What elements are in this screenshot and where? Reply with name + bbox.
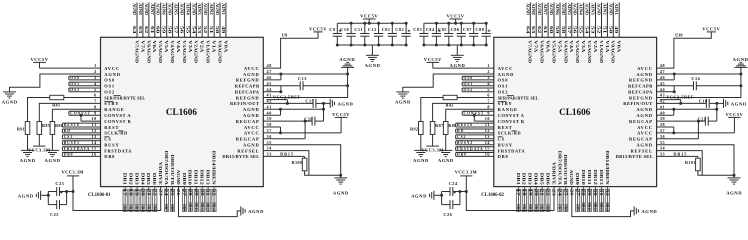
svg-text:40: 40 (267, 110, 272, 115)
svg-text:1: 1 (487, 63, 490, 68)
wire pin43 REFGND U10 (629, 67, 741, 100)
svg-text:OS2: OS2 (70, 88, 80, 92)
svg-text:61: 61 (150, 26, 154, 34)
resistor R42 (series on pin6) (443, 95, 457, 107)
svg-text:49: 49 (221, 26, 225, 34)
svg-text:AGND: AGND (561, 3, 565, 15)
svg-text:DB3: DB3 (134, 173, 139, 185)
pin 60 AGND top stub U10 (549, 3, 554, 38)
svg-text:REFGND: REFGND (236, 95, 260, 100)
svg-text:VCC5V: VCC5V (360, 14, 378, 19)
wire pin34 REFSEL U10 (630, 146, 702, 176)
svg-text:DB11: DB11 (194, 202, 198, 211)
svg-text:DB5: DB5 (540, 204, 544, 211)
svg-text:AIN2: AIN2 (209, 3, 213, 15)
pin 21 DB5 bottom stub U9 (146, 187, 150, 212)
port OS1 to pin 4 U10 (462, 81, 508, 89)
svg-text:DB2: DB2 (522, 204, 526, 211)
svg-text:AIN4: AIN4 (579, 3, 583, 15)
wire pin48 AVCC to VCC5V U10 (637, 32, 711, 71)
svg-text:13: 13 (485, 134, 490, 139)
port FRSTDATA to pin 15 U10 (456, 146, 526, 154)
svg-text:56: 56 (179, 26, 183, 34)
svg-text:2: 2 (487, 69, 490, 74)
svg-text:DB7/DOUTA: DB7/DOUTA (557, 151, 562, 186)
svg-text:AGND: AGND (339, 57, 355, 62)
svg-text:11: 11 (92, 122, 97, 127)
svg-text:SCLK/RD: SCLK/RD (498, 131, 522, 136)
wire pin36 REGCAP U9 (236, 121, 305, 142)
svg-text:V7AGND: V7AGND (528, 40, 533, 63)
wire pin8 RANGE U9 (52, 104, 124, 121)
port DB0 to pin 16 U10 (456, 152, 509, 160)
port DB3 (pin 19) (135, 189, 139, 211)
svg-text:SER/PAR/BYTE SEL: SER/PAR/BYTE SEL (104, 95, 145, 100)
svg-text:AVCC: AVCC (104, 66, 120, 71)
pin name DB3 (134, 173, 139, 185)
svg-text:REST: REST (104, 125, 119, 130)
svg-text:DB10: DB10 (188, 202, 192, 211)
svg-text:DB8/OUTB: DB8/OUTB (563, 154, 568, 185)
svg-text:59: 59 (555, 26, 559, 34)
svg-text:37: 37 (660, 128, 665, 133)
svg-text:DB4: DB4 (534, 204, 538, 211)
svg-text:R91: R91 (17, 127, 25, 132)
pin 29 DB11 bottom stub U10 (587, 187, 591, 212)
svg-text:DB9: DB9 (182, 173, 187, 185)
svg-text:4: 4 (94, 81, 97, 86)
svg-text:REFSEL: REFSEL (630, 148, 652, 153)
svg-text:53: 53 (591, 26, 595, 34)
resistor R86 pulldown (50, 122, 63, 151)
svg-text:AGND: AGND (731, 102, 747, 107)
pin 17 DB1 bottom stub U10 (516, 187, 520, 212)
pin 20 DB4 bottom stub U9 (141, 187, 145, 212)
svg-text:63: 63 (138, 26, 142, 34)
port DB7 (pin 24) (164, 189, 169, 211)
pin name V4A (569, 40, 574, 53)
svg-text:V0A: V0A (617, 40, 622, 53)
svg-text:48: 48 (267, 63, 272, 68)
port DB0 to pin 16 U9 (62, 152, 115, 160)
svg-text:C87: C87 (463, 27, 472, 32)
pin 26 AGND bottom stub U9 (176, 189, 180, 196)
svg-text:REGCAP: REGCAP (629, 137, 653, 142)
svg-text:DB6: DB6 (152, 204, 156, 211)
pin 59 AIN6 top stub U10 (555, 3, 560, 38)
port DB5 (pin 21) (540, 189, 545, 211)
port DB12 (pin 30) (200, 189, 205, 211)
svg-text:DB14: DB14 (605, 202, 609, 211)
wire AGND pin26 bus U9 (179, 187, 241, 217)
wire junction CONVST A-B (473, 114, 476, 121)
port DB4 (pin 20) (534, 189, 539, 211)
svg-text:C82: C82 (395, 27, 404, 32)
pin name V7AGND (528, 40, 533, 63)
port DB12 (pin 30) (593, 189, 598, 211)
power VCC5V (U10 pin 1 AVCC) (424, 57, 442, 68)
svg-text:V4A: V4A (176, 40, 181, 53)
wire AGND pin26 bus U10 (572, 187, 634, 217)
svg-text:AVCC: AVCC (637, 125, 653, 130)
svg-text:V0AGND: V0AGND (217, 40, 222, 63)
svg-text:10: 10 (485, 116, 490, 121)
svg-text:V6A: V6A (152, 40, 157, 53)
svg-text:AGND: AGND (395, 100, 411, 105)
pin 49 AIN1 top stub U9 (221, 3, 226, 38)
wire pin39 REGCAP U9 (236, 116, 312, 124)
svg-text:AGND: AGND (636, 72, 652, 77)
ground AGND (bank, style B) (365, 45, 381, 68)
svg-text:32: 32 (605, 189, 609, 196)
pin name DB7/DOUTA (164, 151, 169, 186)
svg-text:RANGE: RANGE (498, 107, 518, 112)
wire pin47 AGND U9 (243, 69, 349, 77)
port RD to pin 12 U10 (456, 128, 522, 136)
svg-text:VCC2.5REF: VCC2.5REF (273, 95, 301, 100)
pin 17 DB1 bottom stub U9 (123, 187, 127, 212)
svg-text:CONVST A: CONVST A (498, 113, 525, 118)
pin 28 DB10 bottom stub U9 (188, 187, 192, 212)
resistor R41 (series on pin6) (50, 95, 64, 107)
svg-text:58: 58 (168, 26, 172, 34)
svg-text:AGND: AGND (597, 3, 601, 15)
port DB13 (pin 31) (206, 189, 211, 211)
svg-text:AGND: AGND (203, 3, 207, 15)
svg-text:AGND: AGND (2, 100, 18, 105)
svg-text:56: 56 (573, 26, 577, 34)
svg-text:VCC3.3M: VCC3.3M (455, 169, 478, 174)
pin name DB10 (581, 170, 586, 185)
svg-text:VCC5V: VCC5V (726, 112, 744, 117)
svg-text:V0AGND: V0AGND (611, 40, 616, 63)
pin 31 DB13 bottom stub U9 (206, 187, 210, 212)
svg-text:35: 35 (660, 140, 665, 145)
pin name V1AGND (599, 40, 604, 63)
svg-text:47: 47 (267, 69, 272, 74)
pin name DB5 (146, 173, 151, 185)
wire pin1 AVCC U10 (433, 63, 513, 71)
pin name DB1 (123, 173, 128, 185)
power VCC5V (pin48) (702, 26, 720, 32)
pin 50 AGND top stub U9 (215, 3, 220, 38)
svg-text:AGND: AGND (243, 113, 259, 118)
svg-text:OS1: OS1 (498, 84, 509, 89)
svg-text:BUSY: BUSY (498, 143, 513, 148)
svg-text:OS1: OS1 (70, 82, 80, 86)
pin 32 DB14/HBEN bottom stub U10 (605, 187, 609, 212)
svg-text:RD: RD (457, 129, 464, 133)
svg-text:16: 16 (485, 152, 490, 157)
pin name V0A (223, 40, 228, 53)
power VCC5V (U9 pin 1 AVCC) (30, 57, 48, 68)
svg-text:AIN3: AIN3 (591, 3, 595, 15)
svg-text:REST0: REST0 (64, 123, 80, 127)
wire pin1 AVCC U9 (40, 63, 120, 71)
port DB6 (pin 22) (546, 189, 551, 211)
pin 55 AIN4 top stub U10 (579, 3, 584, 38)
svg-text:41: 41 (660, 104, 665, 109)
pin 55 AIN4 top stub U9 (185, 3, 190, 38)
port DB2 (pin 18) (522, 189, 527, 211)
svg-text:AGND: AGND (248, 209, 264, 214)
wire pin33 DB15/BYTE SEL U10 (616, 152, 698, 160)
pin name V0AGND (217, 40, 222, 63)
pin 19 DB3 bottom stub U10 (528, 187, 532, 212)
svg-text:VCC2.5REF: VCC2.5REF (666, 95, 694, 100)
svg-text:OS0: OS0 (70, 76, 80, 80)
svg-text:AGND: AGND (549, 3, 553, 15)
svg-text:DB10: DB10 (581, 202, 585, 211)
svg-text:AGND: AGND (438, 158, 454, 163)
IC U10 CL1606 body (494, 37, 657, 186)
svg-text:DB8: DB8 (170, 204, 174, 211)
svg-text:CS: CS (498, 137, 505, 142)
IC U9 CL1606 body (101, 37, 264, 186)
wire pin36 REGCAP U10 (629, 121, 698, 142)
svg-text:OS0: OS0 (464, 76, 474, 80)
port DB5 (pin 21) (146, 189, 151, 211)
svg-text:55: 55 (579, 26, 583, 34)
ground AGND (reference rail, inverted) (339, 57, 355, 68)
svg-text:FRSTDATA: FRSTDATA (457, 147, 484, 151)
svg-text:VCC5V: VCC5V (447, 14, 465, 19)
svg-text:REGCAP: REGCAP (629, 119, 653, 124)
svg-text:AGND: AGND (144, 3, 148, 15)
wire pin45 REFCAPB U10 (628, 81, 693, 89)
wire pin7 STBY U9 (39, 99, 119, 122)
svg-text:C85: C85 (438, 27, 447, 32)
svg-text:AGND: AGND (636, 113, 652, 118)
svg-text:40: 40 (660, 110, 665, 115)
svg-text:AVCC: AVCC (244, 66, 260, 71)
svg-text:DB5: DB5 (146, 173, 151, 185)
svg-text:REFIN/OUT: REFIN/OUT (623, 101, 653, 106)
svg-text:REFGND: REFGND (629, 95, 653, 100)
port DB14 (pin 32) (605, 189, 609, 211)
port DB6 (pin 22) (152, 189, 157, 211)
svg-text:AVCC: AVCC (244, 125, 260, 130)
port DB11 (pin 29) (194, 189, 199, 211)
wire pin40 AGND U9 (243, 109, 280, 118)
svg-text:AGND: AGND (585, 3, 589, 15)
svg-text:5: 5 (94, 87, 97, 92)
capacitor C11 (decoupling) (354, 22, 369, 47)
pin name V3A (581, 40, 586, 53)
capacitor C82 (decoupling) (395, 22, 410, 47)
svg-text:DB0: DB0 (498, 154, 509, 159)
ground AGND (bank, style B) (450, 45, 466, 68)
port DB4 (pin 20) (141, 189, 146, 211)
svg-text:BUSY2: BUSY2 (457, 141, 473, 145)
svg-text:DB4: DB4 (141, 204, 145, 211)
svg-text:DB3: DB3 (528, 204, 532, 211)
svg-text:DB4: DB4 (140, 173, 145, 186)
pin 52 AGND top stub U9 (203, 3, 208, 38)
svg-text:45: 45 (660, 81, 665, 86)
pin 29 DB11 bottom stub U9 (194, 187, 198, 212)
svg-text:AGND: AGND (726, 190, 742, 195)
pin name DB12 (593, 170, 598, 185)
wire pin38 AVCC U10 (637, 122, 675, 134)
svg-text:DB7/DOUTA: DB7/DOUTA (164, 151, 169, 186)
svg-text:V1AGND: V1AGND (206, 40, 211, 63)
svg-text:DB12: DB12 (593, 170, 598, 185)
wire pin42 REFIN/OUT U9 (230, 99, 313, 107)
svg-text:FRSTDATA: FRSTDATA (498, 148, 526, 153)
svg-text:DB13: DB13 (599, 202, 603, 211)
svg-text:OS0: OS0 (498, 78, 509, 83)
wire pin2 AGND U9 (10, 69, 121, 92)
wire pin38 AVCC U9 (244, 122, 282, 134)
svg-text:CS1: CS1 (64, 135, 73, 139)
svg-text:52: 52 (597, 26, 601, 34)
svg-text:AGND: AGND (636, 107, 652, 112)
pin name DB14/HBEN (211, 151, 216, 186)
svg-text:33: 33 (660, 152, 665, 157)
svg-text:53: 53 (197, 26, 201, 34)
port DB10 (pin 28) (188, 189, 193, 211)
ground AGND (below R92) (413, 150, 429, 163)
svg-text:57: 57 (174, 26, 178, 34)
pin name DB1 (516, 173, 521, 185)
svg-text:AVCC: AVCC (498, 66, 514, 71)
pin 59 AIN6 top stub U9 (162, 3, 167, 38)
svg-text:AGND: AGND (179, 3, 183, 15)
svg-text:V4A: V4A (569, 40, 574, 53)
wire pin47 AGND U10 (636, 69, 742, 77)
wire R-series to R pulldown (421, 98, 443, 122)
capacitor C83 (decoupling) (413, 23, 428, 46)
svg-text:U10: U10 (675, 32, 682, 37)
power VCC5V (AVCC pins 37-38) (332, 112, 350, 118)
pin 53 AIN3 top stub U10 (591, 3, 596, 38)
wire pin7 STBY U10 (433, 99, 513, 122)
svg-text:AGND: AGND (333, 190, 349, 195)
svg-text:DB4: DB4 (534, 173, 539, 186)
svg-text:9: 9 (94, 110, 97, 115)
ground AGND (below R88) (438, 150, 454, 163)
svg-text:3: 3 (487, 75, 490, 80)
svg-text:DB15/BYTE SEL: DB15/BYTE SEL (222, 154, 259, 159)
svg-text:36: 36 (267, 134, 272, 139)
svg-text:AVCC: AVCC (637, 131, 653, 136)
svg-text:BUSY1: BUSY1 (64, 141, 80, 145)
pin name V1A (212, 40, 217, 53)
svg-text:AGND: AGND (338, 102, 354, 107)
port DB9 (pin 27) (575, 189, 580, 211)
pin name DB8/OUTB (563, 154, 568, 185)
svg-text:DB15: DB15 (673, 152, 687, 157)
capacitor C10 (decoupling) (340, 22, 355, 47)
svg-text:DB1: DB1 (123, 204, 127, 211)
wire pin48 AVCC to VCC5V U9 (244, 32, 318, 71)
svg-text:AGND: AGND (243, 143, 259, 148)
svg-text:V5A: V5A (164, 40, 169, 53)
wire pin34 REFSEL U9 (237, 146, 309, 176)
pin name DB7/DOUTA (557, 151, 562, 186)
svg-text:12: 12 (91, 128, 96, 133)
svg-text:REFCAPA: REFCAPA (628, 90, 653, 95)
capacitor C88 (decoupling) (475, 22, 490, 47)
svg-text:DB13: DB13 (206, 202, 210, 211)
svg-text:CONVST B: CONVST B (104, 119, 131, 124)
svg-text:V5AGND: V5AGND (158, 40, 163, 63)
svg-text:AIN1: AIN1 (221, 3, 225, 15)
svg-text:VDRIVE: VDRIVE (158, 162, 163, 185)
pin name V2AGND (194, 40, 199, 63)
pin name V5AGND (551, 40, 556, 63)
svg-text:15: 15 (485, 146, 490, 151)
svg-text:DB15/BYTE SEL: DB15/BYTE SEL (616, 154, 653, 159)
svg-text:54: 54 (585, 26, 589, 34)
wire cap bank rails (337, 23, 406, 45)
svg-text:1: 1 (94, 63, 97, 68)
port DB8 (pin 25) (170, 189, 174, 211)
svg-text:C81: C81 (382, 27, 391, 32)
power VCC3.3M (VDRIVE) (455, 169, 478, 176)
resistor R85 (STBY pull) (37, 122, 50, 146)
pin 23 VDRIVE bottom stub U10 (552, 189, 556, 196)
pin 57 AIN5 top stub U10 (567, 3, 572, 38)
svg-text:AIN7: AIN7 (543, 3, 547, 15)
ground AGND (pin2 U10) (395, 92, 411, 105)
capacitor C86 (decoupling) (451, 22, 466, 47)
svg-text:V1AGND: V1AGND (599, 40, 604, 63)
svg-text:CONVST A: CONVST A (104, 113, 131, 118)
svg-text:DB1: DB1 (123, 173, 128, 185)
svg-text:63: 63 (531, 26, 535, 34)
port OS2 to pin 5 U10 (462, 87, 508, 95)
pin name V7AGND (134, 40, 139, 63)
svg-text:43: 43 (267, 93, 272, 98)
svg-text:47: 47 (660, 69, 665, 74)
svg-text:DB10: DB10 (581, 170, 586, 185)
pin name V7A (140, 40, 145, 53)
pin name V4A (176, 40, 181, 53)
port DB13 (pin 31) (599, 189, 604, 211)
ground AGND (bottom bus) (634, 206, 657, 215)
svg-text:62: 62 (144, 26, 148, 34)
pin name V3A (188, 40, 193, 53)
port CONVST to pin 9 U9 (69, 110, 131, 118)
svg-text:AGND: AGND (45, 158, 61, 163)
pin 18 DB2 bottom stub U10 (522, 187, 526, 212)
port DB8 (pin 25) (563, 189, 568, 211)
pin 54 AGND top stub U10 (585, 3, 590, 38)
svg-text:C12: C12 (368, 27, 377, 32)
svg-text:AGND: AGND (537, 3, 541, 15)
pin name V0A (617, 40, 622, 53)
pin 49 AIN1 top stub U10 (614, 3, 619, 38)
svg-text:V3AGND: V3AGND (575, 40, 580, 63)
pin name V4AGND (563, 40, 568, 63)
port OS2 to pin 5 U9 (69, 87, 115, 95)
svg-text:V4AGND: V4AGND (563, 40, 568, 63)
svg-text:3: 3 (94, 75, 97, 80)
net VCC2.5REF label stub (660, 95, 694, 104)
pin name DB2 (522, 173, 527, 185)
svg-text:DB8/OUTB: DB8/OUTB (170, 154, 175, 185)
pin 27 DB9 bottom stub U10 (575, 187, 579, 212)
svg-text:REFGND: REFGND (236, 78, 260, 83)
resistor R100 (DB15 pulldown) (292, 156, 341, 175)
svg-text:AGND: AGND (413, 158, 429, 163)
pin 26 AGND bottom stub U10 (569, 189, 573, 196)
wire pin10 CONVST B U9 (81, 116, 131, 124)
svg-text:43: 43 (660, 93, 665, 98)
svg-text:14: 14 (91, 140, 97, 145)
